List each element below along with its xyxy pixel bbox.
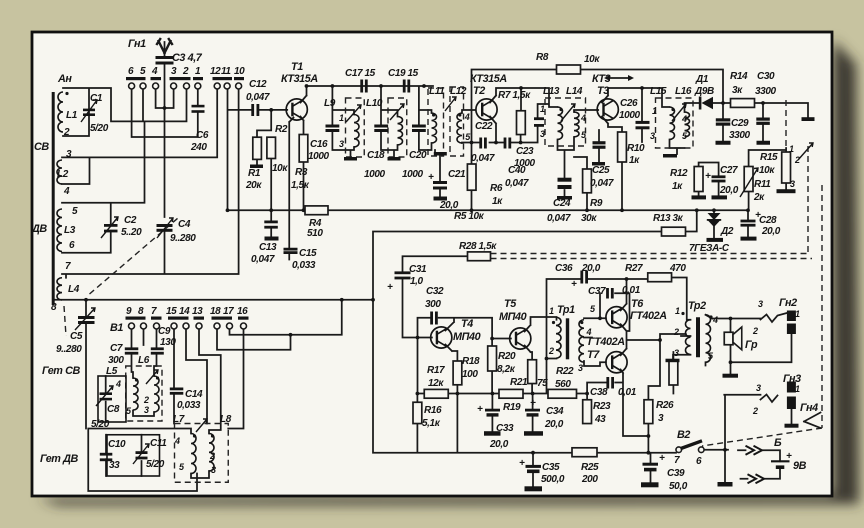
svg-text:43: 43 [594, 414, 606, 425]
svg-text:4: 4 [174, 436, 180, 446]
svg-text:Гн1: Гн1 [128, 38, 146, 50]
svg-text:1: 1 [339, 113, 344, 123]
svg-text:R21: R21 [510, 377, 528, 388]
svg-text:6: 6 [69, 240, 75, 251]
svg-text:33: 33 [109, 460, 120, 471]
svg-text:5/20: 5/20 [90, 123, 109, 134]
svg-text:1: 1 [652, 106, 657, 116]
svg-text:С29: С29 [731, 118, 749, 129]
svg-text:R7 1,5к: R7 1,5к [498, 90, 531, 101]
svg-text:16: 16 [237, 306, 248, 317]
svg-text:С11: С11 [150, 438, 167, 449]
svg-text:R17: R17 [427, 365, 445, 376]
svg-text:С33: С33 [496, 423, 514, 434]
svg-text:С30: С30 [757, 71, 775, 82]
svg-text:1к: 1к [629, 155, 640, 166]
svg-text:С32: С32 [426, 286, 444, 297]
svg-text:14: 14 [179, 306, 190, 317]
svg-text:9В: 9В [793, 460, 807, 472]
svg-text:КТ315А: КТ315А [281, 73, 318, 85]
svg-text:+: + [705, 171, 711, 182]
svg-text:R6: R6 [490, 183, 503, 194]
svg-text:С40: С40 [508, 165, 526, 176]
svg-text:С15: С15 [299, 248, 317, 259]
svg-text:R13 3к: R13 3к [653, 213, 684, 224]
svg-text:5/20: 5/20 [91, 419, 110, 430]
svg-text:L7: L7 [173, 414, 185, 425]
svg-text:4: 4 [681, 114, 687, 124]
svg-text:ГТ402А: ГТ402А [630, 310, 667, 322]
svg-text:R16: R16 [424, 405, 442, 416]
svg-text:0,047: 0,047 [505, 178, 529, 189]
svg-text:R3: R3 [295, 167, 308, 178]
svg-text:Т3: Т3 [597, 85, 609, 97]
svg-text:R12: R12 [670, 168, 688, 179]
svg-text:В1: В1 [110, 322, 123, 334]
svg-text:R28 1,5к: R28 1,5к [459, 241, 497, 252]
svg-text:5/20: 5/20 [146, 459, 165, 470]
svg-text:12: 12 [210, 66, 221, 77]
svg-text:КТ315А: КТ315А [470, 73, 507, 85]
svg-text:С36: С36 [555, 263, 573, 274]
svg-text:0,047: 0,047 [246, 92, 270, 103]
svg-text:8: 8 [51, 302, 57, 313]
svg-text:L5: L5 [106, 366, 118, 377]
svg-text:С1: С1 [90, 93, 103, 104]
svg-text:1000: 1000 [364, 169, 385, 180]
svg-text:+: + [477, 404, 483, 415]
svg-text:С7: С7 [110, 343, 123, 354]
svg-text:1: 1 [795, 384, 800, 394]
svg-text:2: 2 [752, 326, 758, 336]
svg-text:L8: L8 [220, 414, 232, 425]
svg-text:3: 3 [658, 413, 664, 424]
svg-text:L4: L4 [68, 284, 80, 295]
svg-text:С20: С20 [409, 150, 427, 161]
svg-text:+: + [428, 172, 434, 183]
svg-text:СВ: СВ [34, 141, 49, 153]
svg-text:С22: С22 [475, 121, 493, 132]
svg-text:2: 2 [794, 155, 800, 165]
svg-text:3: 3 [756, 383, 761, 393]
svg-text:Ан: Ан [57, 73, 72, 85]
svg-text:0,033: 0,033 [177, 400, 201, 411]
svg-text:L6: L6 [138, 355, 150, 366]
svg-text:3: 3 [66, 149, 72, 160]
svg-text:0,01: 0,01 [622, 285, 641, 296]
svg-text:130: 130 [160, 337, 176, 348]
svg-text:Т7: Т7 [587, 349, 600, 361]
svg-text:R14: R14 [730, 71, 748, 82]
svg-text:1к: 1к [492, 196, 503, 207]
svg-text:Т6: Т6 [631, 298, 644, 310]
svg-text:10: 10 [234, 66, 245, 77]
svg-text:1: 1 [540, 104, 545, 114]
svg-text:50,0: 50,0 [669, 481, 688, 492]
svg-text:L15: L15 [650, 86, 667, 97]
svg-text:С35: С35 [542, 462, 560, 473]
svg-text:3к: 3к [732, 85, 743, 96]
svg-text:20,0: 20,0 [719, 185, 739, 196]
svg-text:С31: С31 [409, 264, 427, 275]
svg-text:С23: С23 [516, 146, 534, 157]
svg-text:L10: L10 [366, 98, 383, 109]
svg-text:3: 3 [578, 363, 583, 373]
svg-text:С6: С6 [196, 130, 209, 141]
svg-text:17: 17 [223, 306, 234, 317]
svg-text:Б: Б [774, 437, 782, 449]
svg-text:3: 3 [674, 348, 679, 358]
svg-text:4: 4 [712, 315, 718, 325]
svg-text:Т1: Т1 [291, 61, 303, 73]
svg-text:240: 240 [190, 142, 207, 153]
svg-text:Гр: Гр [745, 339, 758, 351]
svg-text:R19: R19 [503, 402, 521, 413]
svg-text:1000: 1000 [619, 110, 640, 121]
svg-text:Гн4: Гн4 [800, 402, 818, 414]
svg-text:4: 4 [115, 379, 121, 389]
svg-text:Т2: Т2 [473, 85, 485, 97]
svg-text:3: 3 [650, 131, 655, 141]
svg-text:МП40: МП40 [499, 311, 527, 323]
svg-text:7: 7 [65, 261, 71, 272]
svg-text:7: 7 [674, 455, 680, 466]
svg-text:1: 1 [549, 306, 554, 316]
svg-text:20,0: 20,0 [761, 226, 781, 237]
svg-text:6: 6 [128, 66, 134, 77]
svg-text:2: 2 [548, 346, 554, 356]
svg-text:С19 15: С19 15 [388, 68, 419, 79]
svg-text:С39: С39 [667, 468, 685, 479]
svg-text:3: 3 [171, 66, 177, 77]
svg-text:5,1к: 5,1к [422, 418, 441, 429]
svg-text:9: 9 [126, 306, 132, 317]
svg-text:С16: С16 [310, 139, 328, 150]
svg-text:С18: С18 [367, 150, 385, 161]
svg-text:560: 560 [555, 379, 571, 390]
svg-text:С10: С10 [108, 439, 126, 450]
svg-text:Гет ДВ: Гет ДВ [40, 453, 78, 465]
svg-text:Д2: Д2 [720, 226, 734, 237]
svg-text:2: 2 [209, 451, 215, 461]
svg-text:200: 200 [581, 474, 598, 485]
svg-text:R2: R2 [275, 124, 288, 135]
svg-text:3: 3 [790, 179, 795, 189]
svg-text:470: 470 [669, 263, 686, 274]
svg-text:L12: L12 [450, 86, 467, 97]
svg-text:Тр2: Тр2 [688, 300, 706, 312]
svg-text:С25: С25 [592, 165, 610, 176]
svg-text:С37: С37 [588, 286, 606, 297]
svg-text:8: 8 [138, 306, 144, 317]
svg-text:С5: С5 [70, 331, 83, 342]
svg-text:С14: С14 [185, 389, 203, 400]
svg-text:0,033: 0,033 [292, 260, 316, 271]
svg-text:L16: L16 [675, 86, 692, 97]
svg-text:1: 1 [789, 144, 794, 154]
svg-text:20к: 20к [245, 180, 262, 191]
svg-text:R22: R22 [556, 366, 574, 377]
svg-text:С28: С28 [759, 215, 777, 226]
svg-text:С21: С21 [448, 169, 466, 180]
svg-text:1к: 1к [672, 181, 683, 192]
svg-text:+: + [755, 210, 761, 221]
svg-text:R25: R25 [581, 462, 599, 473]
svg-text:1: 1 [675, 306, 680, 316]
svg-text:В2: В2 [677, 429, 690, 441]
svg-text:+: + [571, 279, 577, 290]
svg-text:С8: С8 [107, 404, 120, 415]
svg-text:R5 10к: R5 10к [454, 211, 485, 222]
svg-text:С38: С38 [590, 387, 608, 398]
svg-text:11: 11 [221, 66, 231, 77]
svg-text:С17 15: С17 15 [345, 68, 376, 79]
svg-text:0,01: 0,01 [618, 387, 637, 398]
svg-text:R20: R20 [498, 351, 516, 362]
svg-text:R26: R26 [656, 400, 674, 411]
svg-text:300: 300 [108, 355, 124, 366]
svg-text:0,047: 0,047 [547, 213, 571, 224]
svg-text:2: 2 [143, 395, 149, 405]
svg-text:500,0: 500,0 [541, 474, 565, 485]
svg-text:Гет СВ: Гет СВ [42, 365, 80, 377]
svg-text:1,0: 1,0 [410, 276, 424, 287]
svg-text:1,5к: 1,5к [291, 180, 310, 191]
svg-text:7: 7 [151, 306, 157, 317]
svg-text:0,047: 0,047 [251, 254, 275, 265]
svg-text:С26: С26 [620, 98, 638, 109]
svg-text:L11: L11 [429, 86, 445, 97]
svg-text:5: 5 [72, 206, 78, 217]
svg-text:12к: 12к [428, 378, 444, 389]
svg-text:L13: L13 [543, 86, 560, 97]
svg-text:Д9В: Д9В [694, 86, 714, 97]
svg-text:МП40: МП40 [453, 331, 481, 343]
svg-text:4: 4 [580, 113, 586, 123]
svg-text:8,2к: 8,2к [497, 364, 516, 375]
svg-text:С3 4,7: С3 4,7 [172, 52, 203, 64]
svg-text:4: 4 [63, 186, 70, 197]
svg-text:510: 510 [307, 228, 323, 239]
svg-text:L3: L3 [64, 225, 76, 236]
svg-text:300: 300 [425, 299, 441, 310]
svg-text:С2: С2 [124, 215, 137, 226]
svg-text:+: + [519, 458, 525, 469]
svg-text:1000: 1000 [402, 169, 423, 180]
svg-text:3: 3 [211, 465, 216, 475]
svg-text:2: 2 [63, 127, 70, 138]
svg-text:ДВ: ДВ [31, 223, 47, 235]
svg-text:1: 1 [195, 66, 201, 77]
svg-text:R9: R9 [590, 198, 603, 209]
svg-text:L9: L9 [324, 98, 336, 109]
svg-text:20,0: 20,0 [581, 263, 601, 274]
svg-text:4: 4 [464, 112, 470, 122]
svg-text:R11: R11 [754, 179, 771, 190]
svg-text:С12: С12 [249, 79, 267, 90]
svg-text:3: 3 [144, 405, 149, 415]
svg-text:Т5: Т5 [504, 298, 517, 310]
svg-text:L2: L2 [57, 169, 69, 180]
svg-text:13: 13 [192, 306, 203, 317]
svg-text:R27: R27 [625, 263, 643, 274]
svg-text:2: 2 [673, 327, 679, 337]
svg-text:С9: С9 [158, 326, 171, 337]
svg-text:Тр1: Тр1 [557, 304, 575, 316]
svg-text:3300: 3300 [755, 86, 776, 97]
svg-text:+: + [659, 453, 665, 464]
svg-text:9..280: 9..280 [170, 233, 196, 244]
svg-text:9..280: 9..280 [56, 344, 82, 355]
svg-text:5: 5 [140, 66, 146, 77]
svg-text:20,0: 20,0 [439, 200, 459, 211]
svg-text:R1: R1 [248, 168, 261, 179]
svg-text:0,047: 0,047 [471, 153, 495, 164]
svg-text:ГТ402А: ГТ402А [588, 336, 625, 348]
svg-text:R23: R23 [593, 401, 611, 412]
svg-text:75: 75 [537, 378, 548, 389]
svg-text:4: 4 [151, 66, 158, 77]
svg-text:С27: С27 [720, 165, 738, 176]
svg-text:0,047: 0,047 [590, 178, 614, 189]
svg-text:6: 6 [696, 456, 702, 467]
svg-text:3300: 3300 [729, 130, 750, 141]
svg-text:L1: L1 [66, 110, 78, 121]
svg-text:10к: 10к [272, 163, 288, 174]
svg-text:2к: 2к [753, 192, 765, 203]
svg-text:10к: 10к [584, 54, 600, 65]
svg-text:3: 3 [339, 139, 344, 149]
svg-text:3: 3 [540, 129, 545, 139]
svg-text:7ГЕЗА-С: 7ГЕЗА-С [689, 243, 730, 254]
svg-text:+: + [786, 451, 792, 462]
svg-text:R15: R15 [760, 152, 778, 163]
svg-text:15: 15 [166, 306, 177, 317]
svg-text:Д1: Д1 [695, 74, 709, 85]
svg-text:R8: R8 [536, 52, 549, 63]
svg-text:18: 18 [210, 306, 221, 317]
svg-text:20,0: 20,0 [489, 439, 509, 450]
svg-text:2: 2 [752, 406, 758, 416]
svg-text:10к: 10к [759, 165, 775, 176]
svg-text:Гн2: Гн2 [779, 297, 797, 309]
svg-text:R10: R10 [627, 143, 645, 154]
svg-text:+: + [387, 282, 393, 293]
svg-text:3: 3 [758, 299, 763, 309]
svg-text:+: + [530, 398, 536, 409]
svg-text:1: 1 [795, 309, 800, 319]
svg-text:С24: С24 [553, 198, 571, 209]
svg-text:С34: С34 [546, 406, 564, 417]
svg-text:1000: 1000 [308, 151, 329, 162]
svg-text:30к: 30к [581, 213, 597, 224]
svg-text:5..20: 5..20 [121, 227, 142, 238]
svg-text:100: 100 [462, 369, 478, 380]
svg-text:Т4: Т4 [461, 318, 473, 330]
svg-text:20,0: 20,0 [544, 419, 564, 430]
svg-text:2: 2 [182, 66, 189, 77]
svg-text:L14: L14 [566, 86, 583, 97]
svg-text:R18: R18 [462, 356, 480, 367]
svg-text:С13: С13 [259, 242, 277, 253]
svg-text:С4: С4 [178, 219, 191, 230]
